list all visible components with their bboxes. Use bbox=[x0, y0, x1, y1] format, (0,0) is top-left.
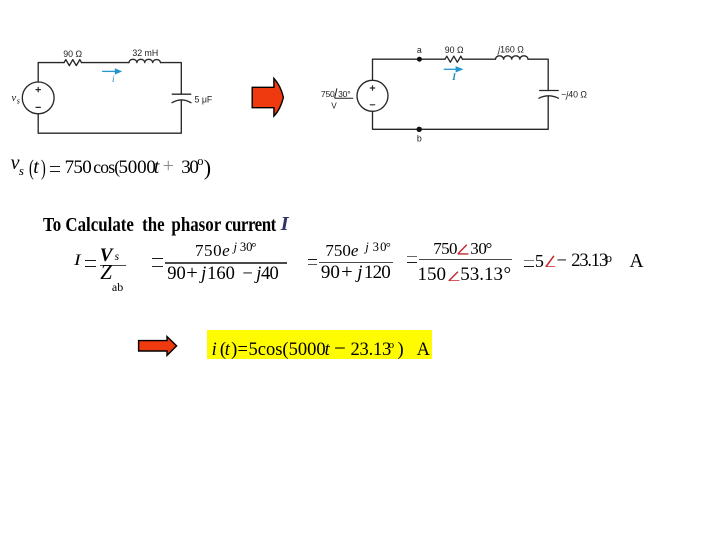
svg-text:I: I bbox=[451, 73, 456, 83]
svg-text:s: s bbox=[17, 96, 20, 105]
svg-text:32 mH: 32 mH bbox=[132, 48, 158, 58]
svg-text:b: b bbox=[417, 134, 422, 144]
svg-text:90 Ω: 90 Ω bbox=[63, 49, 82, 59]
svg-text:30°: 30° bbox=[338, 89, 350, 99]
svg-text:v: v bbox=[12, 93, 17, 104]
svg-text:90 Ω: 90 Ω bbox=[445, 45, 464, 55]
svg-text:i: i bbox=[112, 74, 115, 84]
svg-text:V: V bbox=[331, 101, 337, 110]
svg-text:j160 Ω: j160 Ω bbox=[497, 45, 524, 55]
svg-text:−j40 Ω: −j40 Ω bbox=[561, 90, 587, 100]
svg-text:750: 750 bbox=[321, 89, 335, 99]
svg-text:5 μF: 5 μF bbox=[195, 95, 213, 105]
svg-text:a: a bbox=[417, 45, 422, 55]
